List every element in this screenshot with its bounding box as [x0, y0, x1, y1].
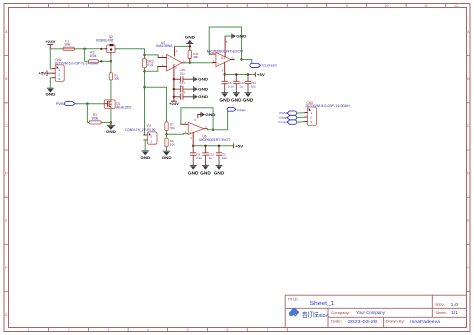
svg-text:10k: 10k — [170, 142, 175, 146]
wire U1 output to Current port — [242, 60, 252, 65]
ground below R6 — [162, 151, 172, 160]
svg-text:Sheet_1: Sheet_1 — [310, 301, 335, 307]
capacitor C9 — [191, 146, 196, 166]
title block — [285, 295, 466, 327]
svg-text:100k: 100k — [89, 54, 96, 58]
svg-text:GND: GND — [219, 98, 230, 103]
wire R11 leads — [189, 46, 191, 62]
ground below C12 — [231, 93, 242, 103]
transistor Q2 — [105, 44, 117, 55]
svg-text:GND: GND — [106, 129, 116, 134]
svg-text:11: 11 — [424, 4, 428, 8]
capacitor C26 — [174, 77, 194, 82]
ground right of C28 — [194, 94, 209, 99]
wire +5V rail of U6 — [193, 145, 233, 147]
power flag +5V right of U1 rail — [255, 73, 265, 78]
wire U6 output to Voltage port — [207, 111, 227, 130]
svg-text:GND: GND — [231, 98, 242, 103]
svg-text:Sheet:: Sheet: — [436, 311, 447, 315]
svg-text:0.1u: 0.1u — [196, 156, 202, 160]
svg-text:D: D — [467, 171, 470, 175]
wire U6 vdd pin down — [192, 133, 194, 146]
netport Current — [250, 63, 277, 67]
capacitor C5 — [216, 146, 221, 166]
power flag +5V at CN2 pin2 — [39, 71, 53, 76]
node voltage sense tap — [143, 86, 145, 88]
ground below C5 — [214, 165, 225, 175]
svg-text:D: D — [5, 171, 8, 175]
node R11 top junction — [189, 45, 191, 47]
wire Q2 gate down — [110, 55, 112, 61]
node U4 bypass tap 3 — [173, 96, 175, 98]
power flag +24V top-left — [46, 40, 56, 49]
connector CN2 — [53, 65, 64, 82]
svg-text:3: 3 — [107, 4, 109, 8]
node divider junction — [165, 133, 167, 135]
svg-text:2023-03-28: 2023-03-28 — [348, 319, 378, 324]
svg-text:CONN-TH_2P-P3.50: CONN-TH_2P-P3.50 — [125, 128, 156, 132]
node C11 rail junction — [247, 73, 249, 75]
capacitor C10 — [203, 146, 208, 166]
svg-text:2: 2 — [68, 4, 70, 8]
op-amp U1 — [213, 41, 235, 73]
netport Voltage to CN3 — [279, 115, 297, 119]
svg-text:3: 3 — [107, 328, 109, 332]
capacitor C11 — [245, 75, 250, 93]
svg-text:C28: C28 — [180, 90, 186, 94]
capacitor C28 — [174, 94, 194, 99]
ground right of U1 — [232, 34, 247, 39]
wire shunt to load column — [143, 68, 146, 135]
svg-text:2ETYVM-5.0-03P-14-00AH: 2ETYVM-5.0-03P-14-00AH — [305, 104, 350, 108]
svg-text:IRLML2502: IRLML2502 — [116, 105, 132, 109]
wire U6 -in stub — [181, 123, 188, 125]
svg-text:Company:: Company: — [331, 311, 350, 315]
svg-text:Date:: Date: — [331, 320, 342, 324]
svg-text:7: 7 — [266, 328, 268, 332]
svg-text:GND: GND — [188, 170, 199, 175]
wire U1 feedback loop — [209, 27, 241, 60]
op-amp U6 — [185, 119, 208, 140]
svg-text:1u: 1u — [180, 84, 184, 88]
wire R7 to R6 — [166, 131, 168, 139]
wire divider to U6 +in — [167, 133, 189, 136]
ground below C10 — [200, 165, 211, 175]
svg-text:U1: U1 — [221, 56, 225, 60]
shunt resistor SR3 — [142, 59, 146, 68]
wire Current port to CN3 pin3 — [297, 121, 305, 124]
connector CN3 — [305, 107, 317, 126]
svg-text:7: 7 — [266, 4, 268, 8]
svg-text:Your Company: Your Company — [356, 310, 386, 315]
svg-text:GND: GND — [214, 170, 225, 175]
wire gate node to R1 — [110, 61, 112, 72]
ground below P2 — [140, 151, 150, 160]
wire fuse to Q2 — [75, 48, 107, 50]
node rail second junction — [100, 48, 102, 50]
svg-text:0.1u: 0.1u — [228, 84, 234, 88]
connector P2 — [144, 132, 157, 144]
svg-text:1: 1 — [28, 328, 30, 332]
svg-text:+24V: +24V — [46, 40, 56, 44]
wire Q1 source to GND node — [110, 109, 112, 123]
wire U4 top gnd link — [175, 45, 190, 47]
netport PWM input — [56, 102, 76, 106]
node shunt bottom tap — [143, 70, 145, 72]
wire U1 vss to gnd flag — [225, 35, 232, 37]
wire shunt bottom to U4 -in — [145, 67, 158, 72]
wire U1 vdd pin down — [224, 63, 226, 75]
node U4 bypass tap 1 — [173, 78, 175, 80]
svg-text:10: 10 — [384, 4, 388, 8]
svg-text:10u: 10u — [180, 71, 185, 75]
svg-text:C: C — [467, 124, 470, 128]
svg-text:TITLE:: TITLE: — [288, 297, 299, 301]
svg-text:GND: GND — [185, 35, 195, 40]
capacitor C27 — [174, 87, 194, 92]
svg-text:1u: 1u — [239, 84, 243, 88]
wire CN2 pin3 to ground — [50, 78, 52, 89]
power flag +5V right of U6 rail — [234, 144, 244, 149]
svg-text:GND: GND — [200, 170, 211, 175]
netport PWM to CN3 — [279, 111, 296, 115]
svg-text:GND: GND — [162, 155, 172, 160]
resistor R6 — [165, 138, 168, 147]
svg-text:30k: 30k — [193, 55, 198, 59]
svg-text:+24V: +24V — [169, 102, 180, 106]
op-amp U4 — [158, 50, 185, 71]
svg-text:GND: GND — [198, 86, 208, 91]
capacitor C12 — [234, 75, 239, 93]
svg-text:1: 1 — [28, 4, 30, 8]
svg-text:1/1: 1/1 — [451, 310, 459, 315]
wire U1 -in stub — [209, 53, 216, 55]
svg-text:MCP6001RT-E/OT: MCP6001RT-E/OT — [199, 138, 230, 142]
svg-text:4: 4 — [147, 328, 149, 332]
wire +24V flag to CN2 pin1 — [50, 49, 52, 69]
node R2 right terminal — [100, 60, 102, 62]
logo text EasyEDA — [303, 312, 330, 320]
wire shunt top to U4 +in — [145, 55, 159, 58]
svg-text:GND: GND — [236, 34, 246, 39]
svg-text:GND: GND — [45, 92, 55, 97]
node rail-R2 junction — [83, 48, 85, 50]
node Q1 source junction — [110, 121, 112, 123]
ground below C9 — [188, 165, 199, 175]
wire R3 to Q1 source node — [101, 121, 111, 123]
svg-text:2: 2 — [68, 328, 70, 332]
svg-text:C: C — [5, 124, 8, 128]
resistor R11 — [188, 50, 191, 59]
wire PWM to Q1 gate — [75, 103, 104, 105]
ground above R11 — [185, 35, 195, 47]
svg-text:INA139NA: INA139NA — [156, 44, 173, 48]
netport Current to CN3 — [278, 120, 296, 124]
wire Voltage port to CN3 pin2 — [297, 116, 305, 119]
svg-text:Current: Current — [262, 64, 277, 68]
wire voltage sense line to R7 — [145, 87, 167, 122]
transistor Q1 — [104, 100, 115, 109]
svg-text:8: 8 — [306, 4, 308, 8]
node C5 rail junction — [218, 145, 220, 147]
resistor R2 — [88, 60, 98, 63]
wire U6 vss pin up — [198, 115, 201, 118]
svg-text:1.0: 1.0 — [451, 302, 460, 307]
node U6 vdd rail junction — [192, 145, 194, 147]
svg-text:5: 5 — [187, 4, 189, 8]
wire PWM port to CN3 pin1 — [297, 112, 305, 115]
svg-text:6: 6 — [226, 4, 228, 8]
node PWM junction — [86, 103, 88, 105]
wire R6 to ground — [166, 147, 168, 151]
svg-text:4: 4 — [147, 4, 149, 8]
svg-text:+5V: +5V — [39, 72, 47, 76]
svg-text:10A: 10A — [64, 43, 71, 47]
node gate-R1 junction — [110, 60, 112, 62]
fuse F1 — [63, 47, 74, 50]
ground right of C27 — [194, 86, 209, 91]
svg-text:100: 100 — [114, 77, 119, 81]
svg-text:Voltage: Voltage — [237, 108, 246, 112]
wire +24V rail to fuse — [50, 48, 63, 50]
wire R1 to Q1 drain — [110, 80, 112, 100]
node shunt top tap — [143, 54, 145, 56]
svg-text:GND: GND — [198, 77, 208, 82]
svg-text:1u: 1u — [209, 156, 213, 160]
svg-text:GND: GND — [205, 112, 215, 117]
node U1 vdd rail junction — [224, 73, 226, 75]
capacitor C8 — [222, 75, 227, 93]
ground below CN2 — [45, 88, 55, 96]
wire U4 V+ pin down — [173, 65, 175, 102]
wire R2 branch — [85, 49, 89, 62]
svg-text:0.01: 0.01 — [147, 63, 153, 67]
ground below C11 — [243, 93, 254, 103]
node U1 output junction — [240, 58, 242, 60]
svg-text:+5V: +5V — [235, 144, 244, 148]
resistor R3 — [89, 121, 101, 124]
svg-text:GND: GND — [198, 94, 208, 99]
svg-text:GND: GND — [140, 155, 150, 160]
svg-text:EDA: EDA — [319, 313, 329, 319]
ground right of C26 — [194, 77, 209, 82]
resistor R1 — [109, 73, 112, 80]
node U6 output junction — [212, 129, 214, 131]
wire U4 output to U1 +in — [185, 62, 213, 64]
svg-text:70k: 70k — [170, 126, 175, 130]
svg-text:100k: 100k — [91, 116, 98, 120]
svg-text:10u: 10u — [251, 84, 256, 88]
svg-text:REV:: REV: — [436, 303, 445, 307]
svg-text:PWM: PWM — [56, 102, 66, 106]
resistor R7 — [165, 122, 168, 131]
svg-text:9: 9 — [346, 4, 348, 8]
wire +5V rail of U1 — [225, 74, 256, 76]
svg-text:5: 5 — [187, 328, 189, 332]
svg-text:Current: Current — [278, 120, 288, 124]
wire U4 gnd pin to top rail — [174, 46, 176, 56]
svg-text:PWM: PWM — [279, 111, 287, 115]
svg-text:GND: GND — [243, 98, 254, 103]
logo EasyEDA cloud — [289, 308, 299, 316]
netport Voltage — [227, 107, 246, 111]
wire P2 pin2 to ground — [144, 140, 145, 151]
svg-text:Drawn By:: Drawn By: — [386, 320, 405, 324]
power flag +24V below U4 — [169, 101, 180, 106]
svg-text:+5V: +5V — [257, 73, 266, 77]
node U4 bypass tap 2 — [173, 88, 175, 90]
svg-text:12: 12 — [454, 4, 458, 8]
svg-text:FDD8908L-F085: FDD8908L-F085 — [96, 38, 113, 42]
node C12 rail junction — [235, 73, 237, 75]
wire U6 feedback loop — [181, 108, 213, 130]
svg-text:10u: 10u — [222, 156, 227, 160]
wire U1 vss pin up — [224, 36, 226, 57]
svg-text:G: G — [5, 313, 8, 317]
wire R2 to gate node — [99, 60, 111, 62]
wire Q2 drain to shunt column — [115, 49, 145, 59]
svg-text:6: 6 — [226, 328, 228, 332]
wire PWM node down to R3 — [87, 104, 89, 123]
ground right of U6 — [201, 112, 216, 117]
svg-text:2ETYVM-5.0-03P-TL-14-00AH: 2ETYVM-5.0-03P-TL-14-00AH — [55, 61, 99, 65]
ground below Q1 — [106, 122, 116, 133]
svg-text:IrinaFadeeva: IrinaFadeeva — [410, 319, 441, 324]
node C10 rail junction — [204, 145, 206, 147]
node U4 output junction — [189, 62, 191, 64]
ground below C8 — [219, 93, 230, 103]
